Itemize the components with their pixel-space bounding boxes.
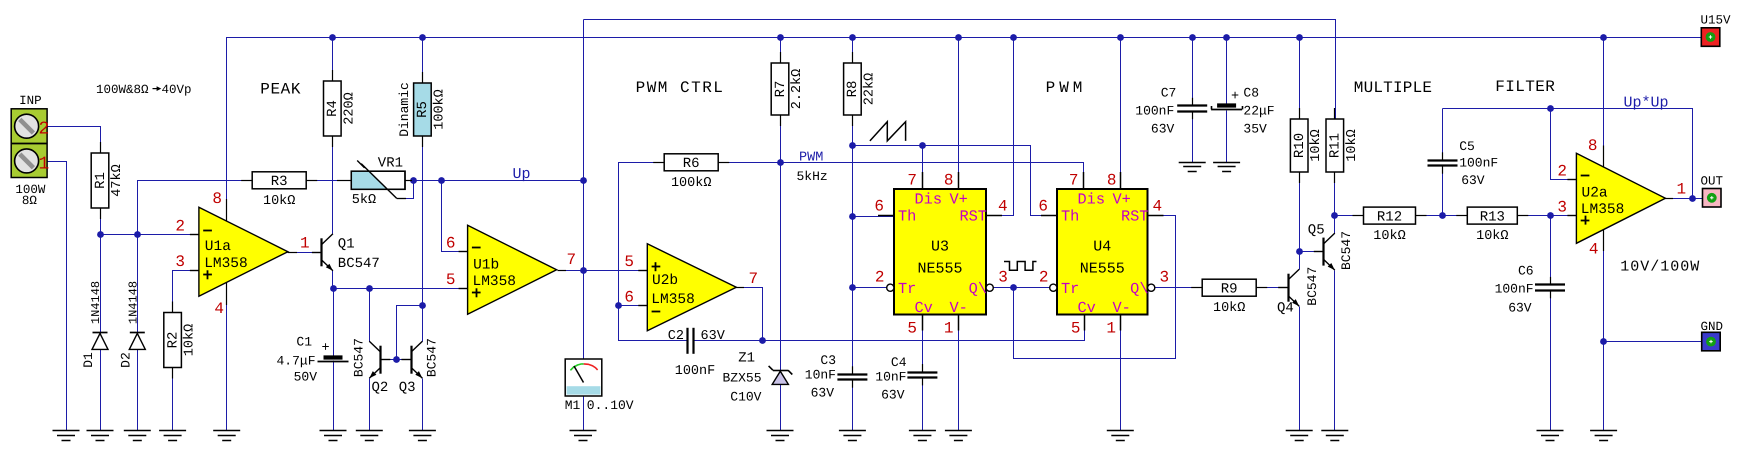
svg-text:Up: Up xyxy=(513,166,531,183)
svg-text:U1b: U1b xyxy=(473,257,499,273)
wire PWM net to U4 Dis xyxy=(718,163,1084,189)
resistor R11 xyxy=(1326,108,1360,183)
wire C5 up xyxy=(1442,109,1444,161)
wire mirror base tie xyxy=(397,306,423,360)
junction xyxy=(1600,34,1607,41)
svg-text:Cv: Cv xyxy=(1078,299,1096,317)
svg-text:U15V: U15V xyxy=(1701,14,1732,28)
wire R5 to Q3 collector xyxy=(422,137,424,342)
svg-text:100nF: 100nF xyxy=(1135,104,1174,119)
svg-text:Tr: Tr xyxy=(898,280,916,298)
wire Q4 emitter to ground xyxy=(1299,307,1301,431)
svg-text:35V: 35V xyxy=(1243,122,1267,137)
555 timer U4 xyxy=(1041,172,1164,331)
wire Q2 emitter to ground xyxy=(369,379,371,431)
svg-text:2: 2 xyxy=(39,120,50,140)
wire U2b output xyxy=(735,288,763,341)
op-amp U1b output pin xyxy=(558,270,567,272)
svg-text:50V: 50V xyxy=(294,370,318,385)
svg-text:U4: U4 xyxy=(1093,238,1111,255)
resistor R2 xyxy=(164,302,198,379)
svg-text:100nF: 100nF xyxy=(1459,156,1498,171)
ground C8 xyxy=(1213,163,1240,172)
svg-text:RST: RST xyxy=(959,207,987,225)
svg-text:Q3: Q3 xyxy=(399,380,416,396)
square wave symbol xyxy=(1004,262,1037,271)
svg-text:6: 6 xyxy=(446,235,456,253)
svg-text:100kΩ: 100kΩ xyxy=(432,89,447,130)
ground xyxy=(213,431,240,441)
wire R10 to Q4 collector xyxy=(1299,173,1301,270)
svg-text:U2b: U2b xyxy=(652,273,678,289)
capacitor C2 xyxy=(688,328,694,354)
svg-text:1N4148: 1N4148 xyxy=(89,281,103,324)
svg-text:C3: C3 xyxy=(820,353,836,368)
junction xyxy=(438,177,445,184)
wire U3 Th xyxy=(853,216,895,218)
wire node to U1a pin2 xyxy=(101,234,199,236)
wire C3 to ground xyxy=(852,380,854,431)
wire node to C5 xyxy=(1442,167,1444,216)
svg-text:7: 7 xyxy=(907,172,917,190)
svg-text:10kΩ: 10kΩ xyxy=(1213,301,1245,316)
svg-text:U3: U3 xyxy=(931,238,949,255)
wire bus to R7 xyxy=(780,38,782,64)
svg-text:8: 8 xyxy=(1107,172,1117,190)
junction xyxy=(580,177,587,184)
svg-text:4: 4 xyxy=(214,300,224,318)
potentiometer VR1 xyxy=(337,161,412,199)
svg-text:Tr: Tr xyxy=(1061,280,1079,298)
svg-text:22kΩ: 22kΩ xyxy=(862,73,877,105)
wire U1a pin3 to R2 xyxy=(173,271,199,313)
diode D2 xyxy=(129,333,145,350)
svg-text:3: 3 xyxy=(1160,269,1170,287)
op-amp - input pin xyxy=(190,231,212,235)
op-amp U1a power pin stubs xyxy=(226,199,228,221)
svg-text:PWM CTRL: PWM CTRL xyxy=(636,79,725,97)
capacitor C6 xyxy=(1535,277,1565,298)
wire bus to R4 xyxy=(332,38,334,82)
svg-text:40Vp: 40Vp xyxy=(162,83,192,97)
svg-text:63V: 63V xyxy=(1508,301,1532,316)
wire U1a out to Q1 base xyxy=(288,252,322,254)
transistor Q4 xyxy=(1278,269,1299,306)
wire R9 to Q4 base xyxy=(1257,287,1289,289)
wire output node to U4 Cv xyxy=(763,315,1085,341)
resistor R9 xyxy=(1191,279,1267,316)
wire C6 to ground xyxy=(1550,291,1552,431)
ground xyxy=(839,431,866,441)
wire R13 to U2a pin3 xyxy=(1518,215,1577,217)
capacitor C8 xyxy=(1211,106,1242,110)
wire U3 Tr xyxy=(853,287,887,289)
junction xyxy=(955,34,962,41)
wire R3 to VR1 xyxy=(306,180,352,182)
svg-text:C8: C8 xyxy=(1243,86,1259,101)
wire R6 to C2 and pin6 branch xyxy=(619,163,688,341)
svg-text:R12: R12 xyxy=(1377,209,1402,225)
wire D1 branch xyxy=(100,235,102,431)
svg-text:R7: R7 xyxy=(773,81,789,98)
svg-text:1: 1 xyxy=(944,320,954,338)
junction xyxy=(1223,34,1230,41)
wire U3 V- to ground xyxy=(958,315,960,431)
svg-text:LM358: LM358 xyxy=(204,256,248,272)
op-amp + input pin xyxy=(1567,216,1589,225)
wire node to Q2 collector xyxy=(369,289,371,342)
junction xyxy=(759,337,766,344)
junction xyxy=(97,231,104,238)
svg-text:63V: 63V xyxy=(701,329,726,344)
svg-text:5: 5 xyxy=(1071,320,1081,338)
svg-text:63V: 63V xyxy=(1461,173,1485,188)
svg-text:C5: C5 xyxy=(1459,139,1475,154)
svg-text:BC547: BC547 xyxy=(1305,267,1320,306)
connector OUT pad xyxy=(1703,189,1722,208)
wire sawtooth net to U4 Th xyxy=(853,146,1059,216)
wire +15V bus xyxy=(227,38,1702,222)
svg-text:5kHz: 5kHz xyxy=(797,169,828,184)
resistor R12 xyxy=(1353,207,1427,244)
junction xyxy=(329,34,336,41)
zener diode Z1 xyxy=(769,366,793,385)
svg-text:5: 5 xyxy=(907,320,917,338)
ground xyxy=(767,431,794,441)
ground xyxy=(356,431,383,441)
wire bus to C7 xyxy=(1192,38,1194,105)
wire U3 Q to U4 Tr xyxy=(994,287,1050,289)
svg-text:BZX55: BZX55 xyxy=(722,371,761,386)
resistor R10 xyxy=(1290,108,1324,183)
wire C4 to ground xyxy=(922,378,924,431)
op-amp U2a output pin xyxy=(1664,198,1673,200)
ground xyxy=(945,431,972,441)
diode D1 xyxy=(92,333,108,350)
svg-text:2: 2 xyxy=(875,269,885,287)
junction xyxy=(366,285,373,292)
svg-text:U1a: U1a xyxy=(205,239,231,255)
svg-text:D1: D1 xyxy=(81,352,96,368)
junction xyxy=(1547,212,1554,219)
capacitor C3 xyxy=(837,366,867,387)
wire bus to R8 xyxy=(852,38,854,64)
ground xyxy=(1286,431,1313,441)
svg-text:+: + xyxy=(321,341,329,356)
svg-text:R8: R8 xyxy=(845,81,861,98)
resistor R8 xyxy=(844,52,878,126)
op-amp U2b output pin xyxy=(735,287,744,289)
transistor Q3 xyxy=(401,341,422,378)
svg-text:LM358: LM358 xyxy=(1581,202,1625,218)
junction xyxy=(1296,248,1303,255)
svg-text:100nF: 100nF xyxy=(675,364,716,379)
wire Q2-Q3 base link xyxy=(381,359,412,361)
wire bus to C8 xyxy=(1226,38,1228,106)
svg-text:V-: V- xyxy=(1113,299,1131,317)
svg-text:6: 6 xyxy=(874,198,884,216)
ground xyxy=(409,431,436,441)
wire R8 to C3 xyxy=(852,116,854,375)
junction xyxy=(393,356,400,363)
svg-text:6: 6 xyxy=(624,289,634,307)
svg-text:Cv: Cv xyxy=(915,299,933,317)
svg-text:R9: R9 xyxy=(1221,282,1238,298)
junction xyxy=(1296,34,1303,41)
op-amp + input pin xyxy=(190,270,212,279)
wire Up vertical to M1 xyxy=(583,20,585,360)
resistor R4 xyxy=(324,70,358,147)
junction xyxy=(615,302,622,309)
capacitor C5 xyxy=(1428,152,1458,173)
connector INP terminal block xyxy=(11,109,47,178)
wire VR1 wiper xyxy=(406,181,414,199)
connector U15V pad xyxy=(1701,28,1720,47)
wire Q5 emitter to ground xyxy=(1334,271,1336,431)
op-amp U1b xyxy=(468,225,557,314)
svg-text:5kΩ: 5kΩ xyxy=(352,193,376,208)
svg-text:VR1: VR1 xyxy=(378,156,403,172)
resistor R3 xyxy=(241,172,317,209)
svg-text:BC547: BC547 xyxy=(338,256,380,272)
svg-text:V-: V- xyxy=(950,299,968,317)
svg-text:1: 1 xyxy=(39,155,50,175)
svg-text:1: 1 xyxy=(1106,320,1116,338)
junction xyxy=(1439,212,1446,219)
ground xyxy=(1537,431,1564,441)
ground xyxy=(124,431,151,441)
svg-text:LM358: LM358 xyxy=(651,292,695,308)
wire INP-2 to R1 xyxy=(48,127,101,154)
svg-text:Up*Up: Up*Up xyxy=(1624,95,1669,112)
svg-text:R5: R5 xyxy=(415,101,431,118)
svg-text:0..10V: 0..10V xyxy=(587,398,634,413)
junction xyxy=(580,267,587,274)
wire feedback top line xyxy=(1443,109,1693,199)
svg-text:R11: R11 xyxy=(1328,133,1344,158)
svg-text:3: 3 xyxy=(1557,199,1567,217)
svg-text:3: 3 xyxy=(998,269,1008,287)
svg-text:7: 7 xyxy=(567,251,577,269)
resistor R13 xyxy=(1456,207,1528,244)
wire R11 to Q5 collector xyxy=(1334,173,1336,234)
svg-text:10nF: 10nF xyxy=(875,370,906,385)
junction xyxy=(849,284,856,291)
transistor Q5 xyxy=(1314,233,1335,270)
transistor Q1 xyxy=(312,234,333,271)
svg-text:63V: 63V xyxy=(1151,122,1175,137)
op-amp - input pin xyxy=(459,248,481,252)
svg-text:+: + xyxy=(1231,90,1239,105)
svg-text:8: 8 xyxy=(1588,137,1598,155)
svg-text:Dis: Dis xyxy=(915,190,943,208)
wire VR1 to Up node xyxy=(406,180,584,182)
svg-text:R4: R4 xyxy=(325,100,341,117)
svg-text:D2: D2 xyxy=(119,352,134,368)
svg-text:10nF: 10nF xyxy=(805,368,836,383)
wire U2b pin6 xyxy=(619,305,648,307)
wire R3 left to node xyxy=(138,181,253,235)
svg-text:U2a: U2a xyxy=(1582,186,1608,202)
wire U4 V+ riser xyxy=(1120,38,1122,190)
resistor R6 xyxy=(653,154,729,191)
svg-text:Th: Th xyxy=(1061,207,1079,225)
svg-text:2: 2 xyxy=(1039,269,1049,287)
svg-text:R6: R6 xyxy=(683,156,700,172)
svg-text:7: 7 xyxy=(1069,172,1079,190)
svg-text:100W&8Ω: 100W&8Ω xyxy=(96,83,149,97)
svg-text:10V/100W: 10V/100W xyxy=(1620,259,1700,276)
wire C2 to output node xyxy=(694,340,763,342)
junction xyxy=(1600,338,1607,345)
wire U1b output xyxy=(558,270,584,272)
wire Up top bus xyxy=(584,20,1336,119)
svg-text:Dinamic: Dinamic xyxy=(397,82,412,137)
connector GND pad xyxy=(1702,332,1721,351)
svg-text:V+: V+ xyxy=(1113,190,1131,208)
svg-text:4.7μF: 4.7μF xyxy=(276,354,315,369)
wire Q3 emitter to ground xyxy=(422,379,424,431)
svg-text:10kΩ: 10kΩ xyxy=(263,194,295,209)
svg-text:1: 1 xyxy=(1677,181,1687,199)
svg-text:63V: 63V xyxy=(881,388,905,403)
wire node to R12 xyxy=(1335,215,1364,217)
ground xyxy=(53,431,80,441)
svg-text:LM358: LM358 xyxy=(473,274,517,290)
svg-text:7: 7 xyxy=(749,270,759,288)
junction xyxy=(134,231,141,238)
wire R2 to ground xyxy=(172,368,174,431)
op-amp U2a power pin stubs xyxy=(1603,146,1605,168)
svg-text:5: 5 xyxy=(624,253,634,271)
wire R4 to Q1 collector xyxy=(332,137,334,234)
wire Q4 collector to Q5 base xyxy=(1300,251,1324,253)
junction xyxy=(1010,284,1017,291)
wire node to C1 xyxy=(333,289,335,357)
wire U1b pin6 feedback xyxy=(442,181,468,252)
svg-text:RST: RST xyxy=(1121,207,1149,225)
svg-text:R1: R1 xyxy=(93,172,109,189)
wire U4 Q to R9 xyxy=(1155,287,1203,289)
op-amp + input pin xyxy=(459,288,481,297)
wire emitter node to U1b pin5 xyxy=(334,288,468,290)
svg-text:BC547: BC547 xyxy=(351,338,366,377)
wire U3 Cv to C4 xyxy=(922,315,924,373)
junction xyxy=(919,142,926,149)
svg-text:NE555: NE555 xyxy=(917,260,962,277)
junction xyxy=(410,177,417,184)
meter M1 xyxy=(565,359,602,396)
wire U4 V- to ground xyxy=(1120,315,1122,431)
resistor R5 xyxy=(397,72,447,147)
svg-text:8: 8 xyxy=(212,190,222,208)
wire bus to R10 xyxy=(1299,38,1301,120)
wire C8 to ground xyxy=(1226,111,1228,163)
ground xyxy=(1107,431,1134,441)
svg-text:1N4148: 1N4148 xyxy=(126,281,140,324)
svg-text:2: 2 xyxy=(175,218,185,236)
resistor R1 xyxy=(91,142,125,219)
svg-text:8Ω: 8Ω xyxy=(22,194,38,208)
wire Up to U2b pin5 xyxy=(584,270,648,272)
wire R7 to Z1 to ground xyxy=(780,116,782,431)
svg-text:10kΩ: 10kΩ xyxy=(1373,229,1405,244)
junction xyxy=(1010,34,1017,41)
ground xyxy=(909,431,936,441)
wire node to C6 xyxy=(1550,216,1552,286)
wire R12 to R13 xyxy=(1416,215,1468,217)
wire U3 RST riser xyxy=(987,38,1014,216)
svg-text:4: 4 xyxy=(1589,241,1599,259)
svg-text:10kΩ: 10kΩ xyxy=(183,324,198,356)
svg-text:C7: C7 xyxy=(1161,86,1177,101)
svg-text:47kΩ: 47kΩ xyxy=(110,164,125,196)
transistor Q2 xyxy=(369,341,390,378)
wire bus to U2a pin8 xyxy=(1603,38,1605,168)
svg-text:R2: R2 xyxy=(165,332,181,349)
svg-text:R10: R10 xyxy=(1292,133,1308,158)
svg-text:100nF: 100nF xyxy=(1495,282,1534,297)
junction xyxy=(330,285,337,292)
svg-text:Q4: Q4 xyxy=(1277,301,1294,317)
sawtooth waveform symbol xyxy=(870,122,906,141)
wire U1a pin4 to ground xyxy=(226,283,228,431)
svg-text:V+: V+ xyxy=(950,190,968,208)
svg-text:INP: INP xyxy=(19,94,42,108)
wire R1 bottom xyxy=(100,210,102,235)
svg-text:GND: GND xyxy=(1701,320,1724,334)
svg-text:10kΩ: 10kΩ xyxy=(1309,129,1324,161)
wire U3 Dis stub xyxy=(922,146,924,189)
svg-text:BC547: BC547 xyxy=(1339,231,1354,270)
svg-text:Q\: Q\ xyxy=(1130,280,1148,298)
resistor R7 xyxy=(771,52,805,126)
svg-text:FILTER: FILTER xyxy=(1495,78,1555,96)
wire Q1 emitter down xyxy=(332,271,334,289)
junction xyxy=(1689,195,1696,202)
svg-text:220Ω: 220Ω xyxy=(342,92,357,124)
junction xyxy=(419,34,426,41)
svg-text:R3: R3 xyxy=(271,174,288,190)
wire U2a pin4 to ground xyxy=(1603,230,1605,431)
wire bus to R5 xyxy=(422,38,424,84)
svg-text:2.2kΩ: 2.2kΩ xyxy=(790,69,805,110)
wire U2a output to OUT xyxy=(1665,198,1703,200)
ground xyxy=(1321,431,1348,441)
ground xyxy=(570,431,597,441)
svg-text:NE555: NE555 xyxy=(1080,260,1125,277)
svg-text:C6: C6 xyxy=(1518,264,1534,279)
svg-text:100kΩ: 100kΩ xyxy=(671,176,712,191)
wire Q out to U4 RST xyxy=(1014,216,1176,359)
555 timer U3 xyxy=(878,172,1002,331)
svg-text:6: 6 xyxy=(1038,198,1048,216)
svg-text:8: 8 xyxy=(944,172,954,190)
ground xyxy=(87,431,114,441)
wire C7 to ground xyxy=(1192,112,1194,163)
junction xyxy=(849,213,856,220)
svg-text:C1: C1 xyxy=(296,335,312,350)
op-amp U2b xyxy=(647,244,736,331)
svg-text:C10V: C10V xyxy=(730,390,761,405)
svg-text:BC547: BC547 xyxy=(424,338,439,377)
junction xyxy=(1117,34,1124,41)
ground C7 xyxy=(1179,163,1206,172)
svg-text:Q2: Q2 xyxy=(372,380,389,396)
svg-text:Dis: Dis xyxy=(1078,190,1106,208)
wire C1 to ground xyxy=(333,361,335,431)
junction xyxy=(419,302,426,309)
